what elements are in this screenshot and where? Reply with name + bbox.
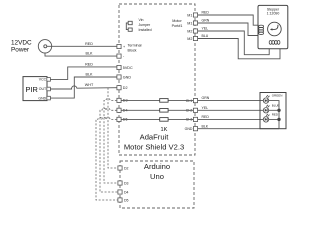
- svg-text:BLK: BLK: [86, 73, 94, 77]
- PIR pin OUT: [47, 87, 51, 91]
- svg-text:RED: RED: [202, 11, 210, 15]
- arduino pin D4: [118, 190, 122, 194]
- svg-text:M2: M2: [187, 29, 192, 33]
- dashed wire D5 passthrough: [96, 117, 118, 200]
- svg-text:Port#1: Port#1: [172, 24, 183, 28]
- svg-text:D3: D3: [124, 181, 129, 185]
- resistor R1 line: [121, 99, 193, 101]
- junction dot 2: [277, 118, 280, 121]
- LED red: [263, 114, 269, 122]
- PIR sensor box: [23, 77, 47, 101]
- svg-text:BLUE: BLUE: [272, 103, 280, 107]
- svg-text:GND: GND: [185, 127, 193, 131]
- svg-text:BLU: BLU: [202, 34, 209, 38]
- wire WHT PIR OUT to D2 with hop: [50, 86, 117, 89]
- svg-text:OUT: OUT: [39, 87, 47, 91]
- label Motor Port#1: [172, 19, 183, 28]
- LED blue: [263, 105, 269, 113]
- arduino pin D2: [118, 166, 122, 170]
- arduino pin D3: [118, 181, 122, 185]
- shield pin +: [117, 44, 121, 48]
- svg-text:GND: GND: [123, 75, 132, 79]
- wire RED M1 to stepper coil A top: [198, 15, 259, 25]
- shield pin D3: [117, 98, 121, 102]
- svg-text:1:12090: 1:12090: [267, 12, 280, 16]
- svg-text:Arduino: Arduino: [144, 162, 170, 171]
- wire RED jack to +: [47, 45, 117, 47]
- resistor R3: [160, 118, 168, 122]
- shield pin 5VDC: [117, 65, 121, 69]
- svg-text:Jumper: Jumper: [139, 23, 152, 27]
- shield pin GND: [117, 75, 121, 79]
- svg-text:12VDC: 12VDC: [11, 39, 32, 46]
- svg-text:YEL: YEL: [202, 106, 209, 110]
- resistor R1: [160, 99, 168, 103]
- arduino pin D5: [118, 198, 122, 202]
- svg-text:Uno: Uno: [150, 172, 164, 181]
- svg-text:+: +: [123, 45, 125, 49]
- svg-text:WHT: WHT: [85, 83, 94, 87]
- svg-text:RED: RED: [85, 62, 93, 66]
- arduino uno dashed box: [120, 161, 194, 208]
- svg-text:GND: GND: [38, 96, 46, 100]
- svg-text:Motor Shield V2.3: Motor Shield V2.3: [124, 143, 184, 152]
- svg-text:D2: D2: [124, 166, 129, 170]
- wire GRN CI-1 to green LED: [198, 100, 264, 102]
- Vin jumper icon: [126, 21, 132, 31]
- rotor arrow: [272, 25, 278, 30]
- shield pin D2: [117, 86, 121, 90]
- wire BLK GND to LED common: [198, 128, 279, 130]
- wire BLU M2 to stepper coil B right: [198, 39, 280, 59]
- shield pin D4: [117, 108, 121, 112]
- wire RED CI-3 to red LED: [198, 118, 264, 120]
- svg-text:BLK: BLK: [202, 124, 209, 128]
- barrel jack J1: [38, 40, 51, 53]
- resistor R3 line: [121, 118, 193, 120]
- svg-text:Installed: Installed: [139, 28, 152, 32]
- LED green: [263, 95, 269, 103]
- svg-text:AdaFruit: AdaFruit: [140, 132, 170, 141]
- stepper motor box: [258, 5, 288, 48]
- svg-text:RED: RED: [272, 113, 279, 117]
- motor shield dashed box: [119, 4, 195, 155]
- svg-text:RED: RED: [202, 115, 210, 119]
- svg-text:-: -: [123, 55, 125, 59]
- label AdaFruit Motor Shield V2.3: [124, 132, 184, 151]
- label Arduino Uno: [144, 162, 170, 181]
- svg-text:YEL: YEL: [202, 27, 209, 31]
- 12VDC power label: [11, 39, 32, 53]
- svg-text:D2: D2: [123, 86, 128, 90]
- svg-text:VCC: VCC: [39, 78, 47, 82]
- label Vin Jumper Installed: [139, 18, 152, 32]
- svg-text:PIR: PIR: [26, 85, 38, 94]
- LED common wire: [269, 101, 279, 129]
- shield pin -: [117, 54, 121, 58]
- dashed wire D2 passthrough: [108, 88, 118, 168]
- wire BLK PIR GND to GND: [50, 77, 117, 98]
- svg-text:BLK: BLK: [86, 52, 94, 56]
- resistor R2: [160, 109, 168, 113]
- resistor R2 line: [121, 109, 193, 111]
- dashed wire D4 passthrough: [100, 108, 118, 192]
- svg-text:D5: D5: [124, 198, 129, 202]
- wire YEL M2 to stepper coil B left: [198, 31, 270, 55]
- stepper coil A (left): [259, 25, 264, 34]
- svg-text:GREEN: GREEN: [272, 94, 283, 98]
- stepper coil B (bottom): [269, 41, 280, 45]
- svg-text:M2: M2: [187, 37, 192, 41]
- svg-text:D4: D4: [124, 190, 129, 194]
- wire BLK jack to -: [45, 53, 117, 56]
- shield pins CI-1 CI-2 CI-3 GND: [193, 99, 197, 103]
- svg-text:RED: RED: [85, 42, 93, 46]
- svg-text:Motor: Motor: [172, 19, 182, 23]
- wire GRN M1 to stepper coil A bottom: [198, 23, 259, 36]
- svg-text:Block: Block: [128, 48, 137, 52]
- svg-text:M1: M1: [187, 13, 192, 17]
- PIR pin GND: [47, 96, 51, 100]
- stepper rotor: [268, 22, 282, 36]
- shield pin D5: [117, 117, 121, 121]
- svg-text:GRN: GRN: [202, 19, 210, 23]
- svg-text:5VDC: 5VDC: [123, 66, 133, 70]
- dashed wire D3 passthrough: [104, 98, 118, 183]
- wire RED PIR VCC to 5VDC: [50, 67, 117, 80]
- svg-text:M1: M1: [187, 21, 192, 25]
- label Stepper: [267, 7, 280, 15]
- wire YEL CI-2 to blue LED: [198, 109, 264, 111]
- junction dot 1: [277, 109, 280, 112]
- svg-text:Power: Power: [11, 46, 30, 53]
- shield pins M1 M1 M2 M2: [193, 13, 197, 17]
- svg-text:GRN: GRN: [202, 96, 210, 100]
- svg-text:1K: 1K: [160, 127, 167, 133]
- svg-text:Vin: Vin: [139, 18, 144, 22]
- LED box: [260, 93, 286, 129]
- PIR pin VCC: [47, 78, 51, 82]
- svg-text:Terminal: Terminal: [128, 43, 142, 47]
